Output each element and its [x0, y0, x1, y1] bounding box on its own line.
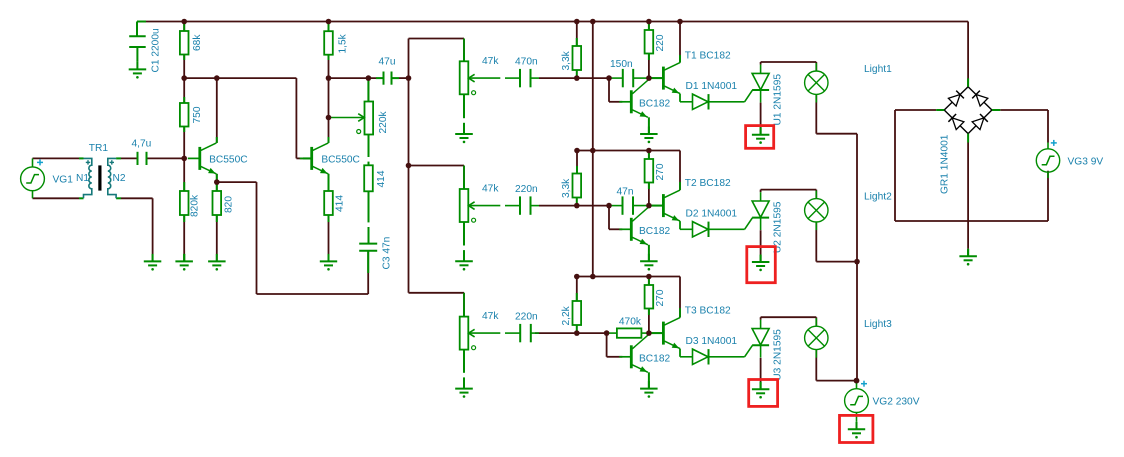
svg-text:D2 1N4001: D2 1N4001 — [686, 209, 738, 220]
svg-text:820k: 820k — [190, 194, 201, 217]
svg-text:U3 2N1595: U3 2N1595 — [773, 329, 784, 381]
svg-text:270: 270 — [655, 289, 666, 306]
svg-text:C3 47n: C3 47n — [382, 237, 393, 270]
svg-text:BC182: BC182 — [639, 353, 670, 364]
svg-text:4,7u: 4,7u — [132, 139, 152, 150]
svg-text:220k: 220k — [378, 111, 389, 134]
svg-text:Light2: Light2 — [864, 191, 892, 202]
svg-text:N1: N1 — [76, 173, 89, 184]
svg-text:220: 220 — [655, 34, 666, 51]
svg-text:N2: N2 — [113, 173, 126, 184]
svg-text:T3 BC182: T3 BC182 — [685, 306, 731, 317]
svg-text:414: 414 — [376, 170, 387, 187]
svg-text:47k: 47k — [482, 184, 499, 195]
svg-text:47k: 47k — [482, 311, 499, 322]
svg-text:VG3 9V: VG3 9V — [1068, 156, 1104, 167]
svg-text:820: 820 — [224, 196, 235, 213]
svg-text:750: 750 — [192, 106, 203, 123]
svg-text:BC182: BC182 — [639, 98, 670, 109]
svg-text:BC182: BC182 — [639, 226, 670, 237]
svg-text:150n: 150n — [610, 59, 633, 70]
svg-text:D1 1N4001: D1 1N4001 — [686, 81, 738, 92]
svg-text:Light1: Light1 — [864, 64, 892, 75]
svg-text:220n: 220n — [515, 312, 538, 323]
svg-text:220n: 220n — [515, 184, 538, 195]
svg-text:47u: 47u — [379, 57, 396, 68]
svg-text:Light3: Light3 — [864, 319, 892, 330]
svg-text:68k: 68k — [192, 34, 203, 51]
svg-text:VG1: VG1 — [53, 175, 74, 186]
svg-text:D3 1N4001: D3 1N4001 — [686, 336, 738, 347]
svg-text:3,3k: 3,3k — [561, 50, 572, 70]
svg-text:U1 2N1595: U1 2N1595 — [773, 74, 784, 126]
svg-text:1,5k: 1,5k — [338, 33, 349, 53]
svg-text:2,2k: 2,2k — [561, 305, 572, 325]
svg-text:BC550C: BC550C — [209, 155, 248, 166]
svg-text:T1 BC182: T1 BC182 — [685, 51, 731, 62]
svg-text:470n: 470n — [515, 57, 538, 68]
svg-text:47k: 47k — [482, 56, 499, 67]
svg-text:47n: 47n — [617, 187, 634, 198]
svg-text:C1 2200u: C1 2200u — [151, 28, 162, 72]
svg-text:3,3k: 3,3k — [561, 178, 572, 198]
svg-text:VG2 230V: VG2 230V — [873, 397, 920, 408]
svg-text:GR1 1N4001: GR1 1N4001 — [940, 134, 951, 194]
svg-text:T2 BC182: T2 BC182 — [685, 178, 731, 189]
svg-text:BC550C: BC550C — [321, 155, 360, 166]
svg-text:TR1: TR1 — [89, 143, 109, 154]
svg-text:414: 414 — [335, 195, 346, 212]
svg-text:470k: 470k — [619, 316, 642, 327]
svg-text:270: 270 — [655, 163, 666, 180]
